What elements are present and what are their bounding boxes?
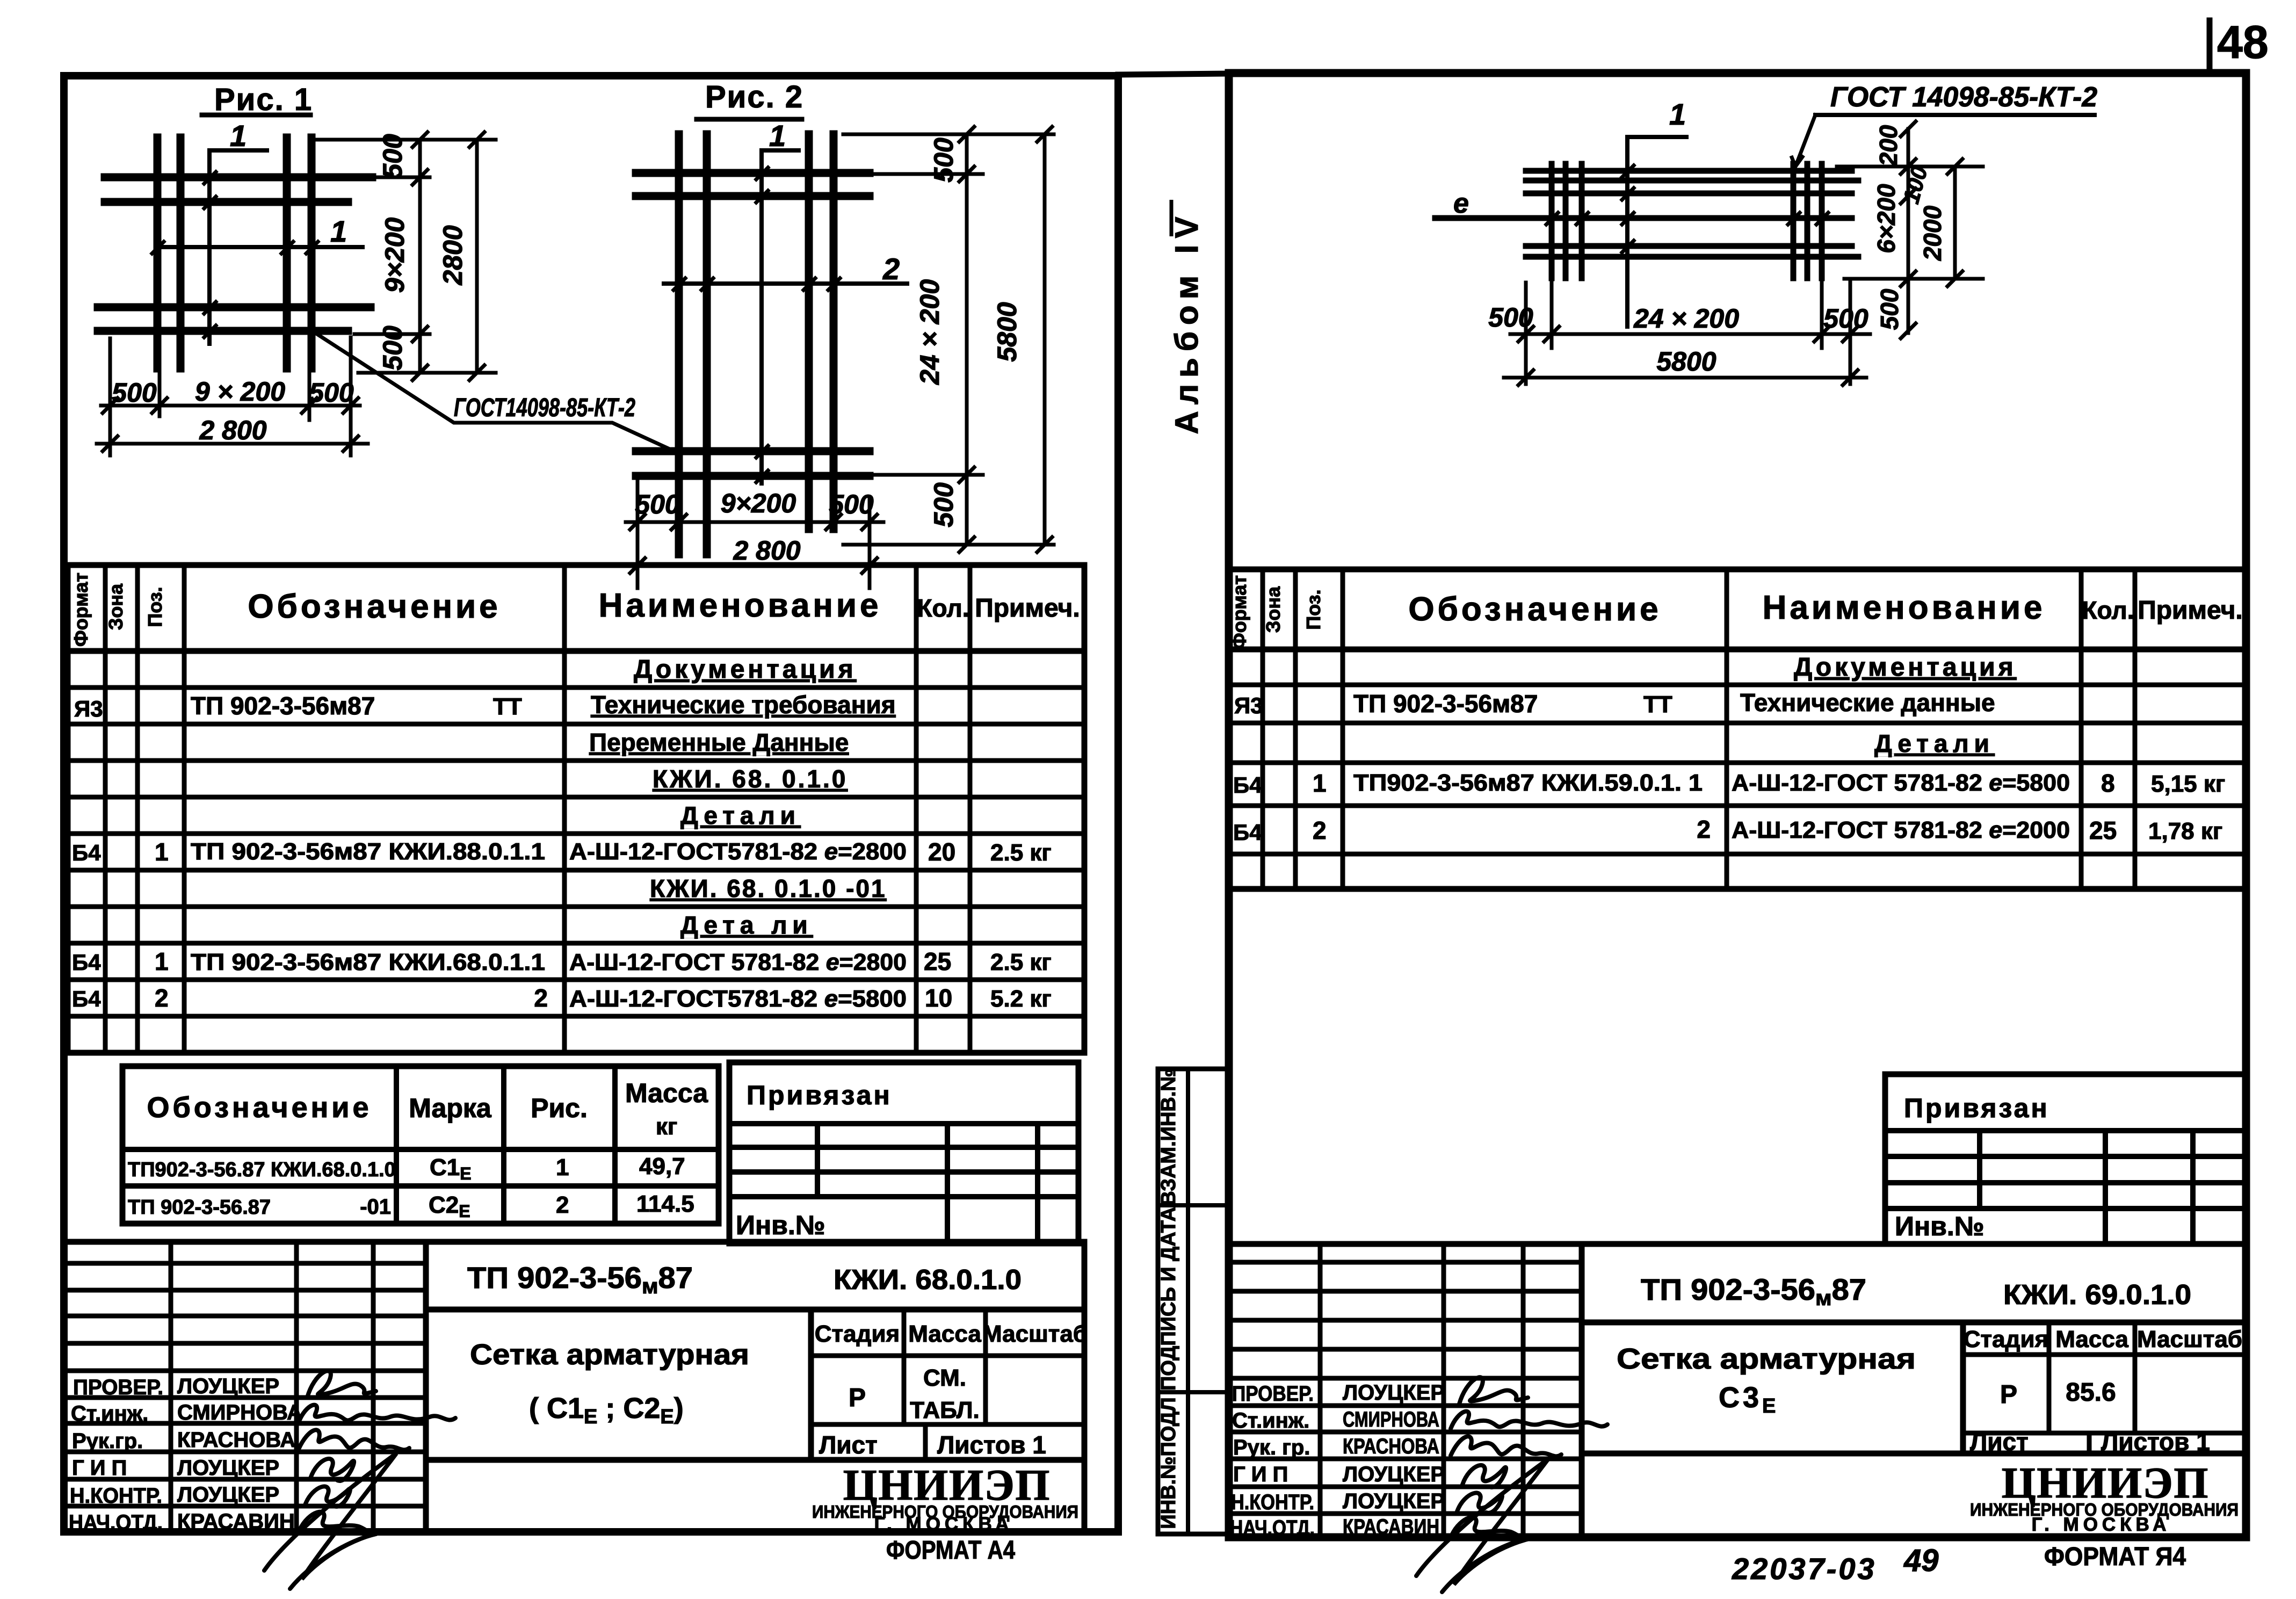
right title massa-masshtab divider (2133, 1322, 2138, 1433)
svg-text:ГОСТ 14098-85-КТ-2: ГОСТ 14098-85-КТ-2 (1830, 82, 2097, 113)
svg-text:Я3: Я3 (74, 696, 103, 721)
right title left-part row lines (1229, 1260, 1582, 1265)
LEFT TABLE GRID (68, 565, 1084, 1053)
svg-text:2: 2 (155, 984, 169, 1012)
svg-text:КРАСНОВА: КРАСНОВА (1343, 1435, 1439, 1458)
svg-text:500: 500 (378, 325, 408, 371)
right table outer box (1229, 569, 2245, 889)
svg-text:85.6: 85.6 (2066, 1378, 2116, 1407)
svg-text:Дета ли: Дета ли (680, 911, 813, 939)
svg-text:Обозначение: Обозначение (147, 1091, 372, 1124)
svg-text:10: 10 (925, 984, 952, 1012)
gost leader polyline (312, 331, 672, 450)
LEFT TITLE BLOCK (68, 1242, 1084, 1532)
svg-text:ЛОУЦКЕР: ЛОУЦКЕР (1343, 1463, 1445, 1486)
right title stadia-massa divider (2047, 1322, 2052, 1433)
right title list row top (1963, 1431, 2245, 1436)
fig2 title underline (697, 117, 802, 122)
svg-text:Масса: Масса (2055, 1326, 2128, 1352)
c3e mesh vertical bar v5 (1805, 164, 1810, 278)
svg-text:-01: -01 (360, 1195, 391, 1219)
svg-text:Обозначение: Обозначение (1408, 591, 1661, 628)
c3e mesh horizontal bar h6 (1526, 254, 1858, 260)
fig1 mesh vertical bar v1 (154, 138, 162, 368)
album IV overline (1170, 200, 1174, 236)
svg-text:Г И П: Г И П (72, 1456, 127, 1480)
fig2 mesh vertical bar v1 (675, 134, 683, 554)
fig2 mesh horizontal bar h4 (636, 472, 870, 480)
r-signature gip loutsker (1462, 1465, 1506, 1487)
svg-text:Поз.: Поз. (1302, 589, 1324, 630)
c3e right ext line top (1837, 165, 1983, 169)
svg-text:ФОРМАТ Я4: ФОРМАТ Я4 (2044, 1543, 2186, 1571)
left title designation row bottom (426, 1307, 1084, 1313)
svg-text:КРАСНОВА: КРАСНОВА (177, 1428, 295, 1452)
right title block top line (1229, 1241, 2245, 1247)
left table outer box (68, 565, 1084, 1053)
svg-text:25: 25 (924, 947, 951, 975)
svg-text:8: 8 (2101, 769, 2115, 797)
fig2 right ext line bottom (843, 543, 1054, 547)
c3e gost leader diagonal (1791, 115, 1815, 167)
svg-text:Б4: Б4 (72, 840, 101, 865)
small table column massa (612, 1066, 618, 1224)
svg-text:ТТ: ТТ (493, 693, 522, 720)
svg-text:КЖИ. 69.0.1.0: КЖИ. 69.0.1.0 (2003, 1279, 2191, 1311)
svg-text:Зона: Зона (105, 583, 127, 630)
fig1 mesh horizontal bar h2 (105, 198, 348, 206)
left table column primech (968, 565, 973, 1053)
c3e mesh horizontal bar h1 (1526, 168, 1852, 174)
svg-text:ТП 902-3-56м87: ТП 902-3-56м87 (467, 1261, 693, 1298)
svg-text:Н.КОНТР.: Н.КОНТР. (1231, 1491, 1314, 1514)
svg-text:2: 2 (534, 984, 548, 1012)
left table column oboznachenie (562, 565, 567, 1053)
fig1 dim line 500-9x200-500 vertical (418, 140, 422, 373)
GOST leader label (312, 331, 672, 450)
right table header bottom line (1229, 647, 2245, 653)
svg-text:5,15 кг: 5,15 кг (2151, 771, 2225, 797)
c3e mesh vertical bar v4 (1791, 164, 1797, 278)
svg-text:ГОСТ14098-85-КТ-2: ГОСТ14098-85-КТ-2 (454, 394, 635, 422)
small table header line (122, 1147, 719, 1152)
left table column poz (182, 565, 187, 1053)
LEFT PRIVYAZAN TEXTS (736, 1080, 892, 1240)
svg-text:СМИРНОВА: СМИРНОВА (1343, 1408, 1439, 1431)
fig2 mesh vertical bar v4 (830, 134, 838, 529)
fig1 mesh vertical bar v2 (177, 138, 185, 368)
svg-text:ЛОУЦКЕР: ЛОУЦКЕР (177, 1483, 279, 1507)
fig1 right ext line top (316, 138, 496, 142)
fig2 mesh vertical bar v3 (805, 134, 813, 529)
svg-text:2: 2 (1313, 816, 1327, 844)
fig2 mesh horizontal bar h3 (636, 447, 870, 455)
fig1 bottom ext vertical right (349, 337, 353, 455)
fig1 right ext line bottom (358, 371, 496, 375)
small table column ris (501, 1066, 506, 1224)
left table column kol (914, 565, 919, 1053)
svg-text:2: 2 (882, 252, 900, 286)
svg-text:ФОРМАТ А4: ФОРМАТ А4 (886, 1536, 1015, 1565)
fig1 bottom ext vertical bar4 (308, 338, 312, 420)
left title list divider (923, 1424, 928, 1460)
c3e right dim chain 2 (1953, 167, 1957, 279)
svg-text:Поз.: Поз. (144, 587, 166, 627)
sheet 2 frame (1229, 73, 2246, 1537)
svg-text:Масса: Масса (625, 1078, 708, 1108)
signature n.kontr loutsker (305, 1487, 350, 1507)
svg-text:5800: 5800 (992, 302, 1022, 361)
svg-text:Привязан: Привязан (1904, 1093, 2049, 1123)
small table outer box (122, 1066, 719, 1224)
margin strip box (1158, 1069, 1228, 1534)
svg-text:Примеч.: Примеч. (2138, 596, 2243, 625)
svg-text:Технические данные: Технические данные (1740, 689, 1995, 717)
RIGHT TITLE BLOCK (1229, 1244, 2245, 1537)
right table column zona (1293, 569, 1298, 889)
fig1 right ext line bar4 (354, 332, 430, 336)
right title list divider (2087, 1433, 2092, 1453)
left table column zona (135, 565, 140, 1053)
svg-text:ЛОУЦКЕР: ЛОУЦКЕР (177, 1374, 279, 1398)
svg-text:Переменные Данные: Переменные Данные (589, 728, 849, 756)
svg-text:Р: Р (849, 1384, 866, 1412)
svg-text:Листов 1: Листов 1 (937, 1431, 1046, 1459)
SIGNATURES RIGHT (1416, 1377, 1607, 1592)
svg-text:ИНВ.№ПОДЛ: ИНВ.№ПОДЛ (1157, 1397, 1180, 1529)
svg-text:2000: 2000 (1918, 205, 1946, 261)
svg-text:2 800: 2 800 (733, 536, 800, 566)
svg-text:1: 1 (230, 119, 247, 153)
right table column oboznachenie (1725, 569, 1729, 889)
svg-text:ТП 902-3-56м87 КЖИ.88.0.1.1: ТП 902-3-56м87 КЖИ.88.0.1.1 (191, 838, 545, 865)
left title stadia header bottom (811, 1354, 1084, 1358)
svg-text:ТП 902-3-56м87: ТП 902-3-56м87 (1641, 1272, 1866, 1310)
svg-text:Г И П: Г И П (1233, 1463, 1288, 1486)
c3e mesh horizontal bar l (1435, 215, 1852, 221)
c3e mesh horizontal bar h2 (1526, 178, 1858, 184)
svg-text:А-Ш-12-ГОСТ 5781-82 e=5800: А-Ш-12-ГОСТ 5781-82 e=5800 (1732, 770, 2070, 796)
svg-text:Масса: Масса (908, 1321, 981, 1347)
svg-text:ТП 902-3-56м87 КЖИ.68.0.1.1: ТП 902-3-56м87 КЖИ.68.0.1.1 (191, 949, 545, 975)
c3e section line 1 flag (1627, 137, 1686, 327)
svg-text:2 800: 2 800 (199, 415, 266, 445)
fig1 right ext line bar1 (354, 176, 430, 179)
LEFT TITLE BLOCK TEXTS (69, 1261, 1088, 1565)
c3e bottom ext vertical bar6 (1820, 281, 1824, 348)
right privyazan column lines (1977, 1131, 1982, 1209)
svg-text:А-Ш-12-ГОСТ5781-82 e=5800: А-Ш-12-ГОСТ5781-82 e=5800 (569, 986, 907, 1012)
svg-text:СМ.: СМ. (923, 1365, 966, 1391)
margin strip cell line VZAM (1158, 1203, 1228, 1207)
fig2 bottom ticks (630, 515, 877, 573)
right table column kol (2079, 569, 2084, 889)
svg-text:24 × 200: 24 × 200 (1633, 303, 1739, 334)
svg-text:Г. МОСКВА: Г. МОСКВА (874, 1514, 1013, 1535)
left title left-part columns (169, 1242, 173, 1532)
fig1 bottom ext vertical bar1 (158, 344, 162, 416)
fig1 section line 1 flag (209, 150, 267, 344)
svg-text:ПРОВЕР.: ПРОВЕР. (73, 1376, 163, 1399)
svg-text:СМИРНОВА: СМИРНОВА (177, 1401, 302, 1424)
svg-text:Сетка арматурная: Сетка арматурная (1617, 1343, 1916, 1375)
fig2 dim line 24x200 vertical (965, 134, 969, 545)
left table header bottom line (68, 648, 1084, 654)
LEFT PRIVYAZAN BOX (729, 1062, 1078, 1243)
svg-text:Листов 1: Листов 1 (2101, 1428, 2210, 1456)
fig1 bottom ext vertical left (108, 338, 112, 455)
c3e weld ticks (1546, 165, 1828, 252)
svg-text:Б4: Б4 (1233, 772, 1262, 798)
r-signature ruk.gr krasnova (1451, 1436, 1561, 1456)
left title stadia section left edge (808, 1309, 814, 1460)
svg-text:кг: кг (656, 1113, 677, 1140)
LEFT SMALL TABLE (122, 1066, 719, 1224)
c3e right ticks (1901, 121, 1962, 338)
r-signature prover loutsker (1459, 1377, 1528, 1404)
svg-text:А-Ш-12-ГОСТ 5781-82 e=2800: А-Ш-12-ГОСТ 5781-82 e=2800 (569, 949, 907, 975)
RIGHT TITLE BLOCK TEXTS (1230, 1272, 2242, 1586)
svg-text:Обозначение: Обозначение (248, 588, 501, 625)
svg-text:Марка: Марка (409, 1093, 492, 1123)
svg-text:ЛОУЦКЕР: ЛОУЦКЕР (1343, 1489, 1445, 1513)
svg-text:Детали: Детали (1874, 729, 1995, 757)
svg-text:5.2 кг: 5.2 кг (990, 986, 1052, 1012)
svg-text:20: 20 (928, 838, 955, 866)
svg-text:ПОДПИСЬ И ДАТА: ПОДПИСЬ И ДАТА (1157, 1207, 1180, 1391)
svg-text:500: 500 (635, 489, 680, 519)
right title left-part columns (1318, 1244, 1323, 1537)
svg-text:Кол.: Кол. (2082, 596, 2134, 624)
svg-text:Ст.инж.: Ст.инж. (71, 1402, 148, 1426)
fig1 bottom ticks (103, 398, 358, 451)
svg-text:Р: Р (2000, 1380, 2017, 1409)
fig1 mesh horizontal bar h3 (98, 303, 371, 312)
svg-text:6×200: 6×200 (1872, 184, 1900, 254)
fig1 mesh horizontal bar h1 (105, 173, 372, 182)
fig2 dim ticks right (959, 127, 1052, 552)
svg-text:Альбом IV: Альбом IV (1169, 211, 1205, 435)
c3e bottom chain 5800 (1504, 376, 1866, 380)
svg-text:500: 500 (1875, 288, 1903, 330)
small table column marka (394, 1066, 399, 1224)
fig1 mesh vertical bar v3 (283, 138, 291, 368)
svg-text:ВЗАМ.ИНВ.№: ВЗАМ.ИНВ.№ (1157, 1068, 1180, 1206)
right table column poz (1341, 569, 1345, 889)
FIG 1 (97, 115, 496, 455)
c3e bottom chain 500-24x200-500 (1510, 332, 1870, 336)
svg-text:КРАСАВИН: КРАСАВИН (1343, 1515, 1439, 1539)
RIGHT PRIVYAZAN BOX (1885, 1074, 2245, 1244)
fig2 section line 1 flag (762, 150, 799, 483)
RIGHT PRIVYAZAN TEXTS (1895, 1093, 2049, 1241)
svg-text:Сетка арматурная: Сетка арматурная (470, 1338, 749, 1371)
svg-text:Б4: Б4 (72, 986, 101, 1011)
fig1 section cut 1 horizontal (160, 245, 363, 249)
signature nach.otd krasavin flourish (300, 1512, 379, 1534)
privyazan column lines (815, 1124, 820, 1197)
left title main box bottom (426, 1457, 1084, 1463)
svg-text:9×200: 9×200 (380, 218, 410, 293)
fig2 section cut 2 horizontal (664, 281, 907, 286)
svg-text:Б4: Б4 (72, 950, 101, 975)
svg-text:КЖИ. 68. 0.1.0 -01: КЖИ. 68. 0.1.0 -01 (650, 874, 887, 902)
svg-text:ТП 902-3-56м87: ТП 902-3-56м87 (191, 692, 375, 720)
c3e bottom ticks (1518, 327, 1858, 385)
c3e bottom ext vertical right (1849, 283, 1852, 384)
svg-text:Технические требования: Технические требования (591, 691, 896, 719)
fig1 bottom chain 2800 (97, 442, 368, 446)
left table row lines (68, 685, 1084, 690)
fig2 right ext line top (843, 133, 1054, 136)
svg-text:Масштаб: Масштаб (982, 1321, 1088, 1347)
signature st.inzh smirnova (299, 1405, 455, 1422)
svg-text:Кол.: Кол. (917, 594, 969, 622)
fig2 right ext line bar1 (870, 172, 983, 176)
left title block top line (68, 1239, 1084, 1245)
c3e bottom ext vertical bar1 (1550, 283, 1554, 348)
svg-text:Наименование: Наименование (1763, 589, 2046, 626)
svg-text:Инв.№: Инв.№ (1895, 1211, 1984, 1241)
svg-text:А-Ш-12-ГОСТ 5781-82 e=2000: А-Ш-12-ГОСТ 5781-82 e=2000 (1732, 817, 2070, 843)
right title stadia section left edge (1960, 1322, 1966, 1453)
svg-text:500: 500 (1823, 303, 1868, 334)
svg-text:48: 48 (2217, 17, 2269, 68)
svg-text:Формат: Формат (70, 573, 92, 647)
privyazan label row line (729, 1121, 1078, 1126)
left title stadia-massa divider (902, 1309, 907, 1424)
svg-text:КЖИ. 68.0.1.0: КЖИ. 68.0.1.0 (834, 1264, 1022, 1296)
c3e mesh horizontal bar h3 (1526, 191, 1852, 197)
svg-text:49: 49 (1903, 1543, 1939, 1578)
left title left-part row lines (68, 1261, 426, 1266)
svg-text:22037-03: 22037-03 (1732, 1552, 1877, 1586)
svg-text:Наименование: Наименование (599, 587, 882, 624)
fig2 bottom chain 500-9x200-500 (626, 520, 883, 524)
c3e mesh vertical bar v1 (1549, 164, 1555, 278)
page number tick (2207, 20, 2213, 73)
svg-text:2: 2 (556, 1192, 569, 1218)
c3e gost underline (1815, 113, 2095, 117)
svg-text:Лист: Лист (819, 1431, 878, 1459)
margin strip divider vertical (1186, 1069, 1190, 1534)
fig1 title underline (202, 113, 310, 118)
right title main box bottom (1582, 1451, 2245, 1457)
top border joining line (1118, 74, 1229, 75)
svg-text:2.5 кг: 2.5 кг (990, 840, 1052, 866)
svg-text:ЛОУЦКЕР: ЛОУЦКЕР (177, 1456, 279, 1480)
svg-text:500: 500 (378, 134, 408, 179)
c3e right dim chain 1 (1907, 129, 1910, 333)
svg-text:25: 25 (2089, 816, 2117, 844)
svg-text:ТТ: ТТ (1643, 691, 1672, 718)
svg-text:1: 1 (330, 214, 347, 248)
svg-text:9×200: 9×200 (721, 488, 796, 518)
svg-text:Рук. гр.: Рук. гр. (1233, 1436, 1310, 1459)
right table column primech (2133, 569, 2138, 889)
FIG 2 (622, 119, 1054, 588)
fig2 bottom chain 2800 (622, 564, 887, 568)
fig2 mesh vertical bar v2 (703, 134, 711, 554)
fig1 dim line 2800 vertical (475, 140, 479, 373)
c3e mesh vertical bar v6 (1819, 164, 1825, 278)
svg-text:ЛОУЦКЕР: ЛОУЦКЕР (1343, 1381, 1445, 1405)
svg-text:Стадия: Стадия (815, 1321, 900, 1347)
SIGNATURES LEFT (264, 1371, 455, 1589)
LEFT SMALL TABLE TEXTS (128, 1078, 708, 1221)
small table row line (122, 1183, 719, 1189)
svg-text:500: 500 (1488, 302, 1533, 332)
fig2 dim line 5800 vertical (1043, 134, 1047, 545)
svg-text:5800: 5800 (1656, 346, 1716, 377)
svg-text:e: e (1453, 188, 1469, 219)
svg-text:КРАСАВИН: КРАСАВИН (177, 1510, 295, 1533)
svg-text:114.5: 114.5 (636, 1191, 694, 1217)
fig2 mesh horizontal bar h2 (636, 192, 870, 200)
svg-text:1,78 кг: 1,78 кг (2148, 818, 2222, 844)
c3e bottom ext vertical left (1524, 283, 1528, 384)
r-signature n.kontr loutsker (1457, 1493, 1502, 1513)
svg-text:Формат: Формат (1228, 575, 1250, 649)
fig2 right ext line bar4 (870, 473, 983, 477)
svg-text:Рис. 2: Рис. 2 (705, 79, 803, 114)
left table column format (103, 565, 108, 1053)
RIGHT TABLE TEXTS (1228, 575, 2243, 845)
r-signature st.inzh smirnova (1451, 1412, 1607, 1429)
svg-text:А-Ш-12-ГОСТ5781-82 e=2800: А-Ш-12-ГОСТ5781-82 e=2800 (569, 838, 907, 865)
svg-text:Б4: Б4 (1233, 820, 1262, 845)
svg-text:ПРОВЕР.: ПРОВЕР. (1232, 1382, 1314, 1406)
fig1 dim ticks right (412, 132, 484, 380)
fig1 bottom chain 500-9x200-500 (101, 404, 360, 408)
svg-text:2800: 2800 (438, 225, 468, 285)
fig2 bottom ext vertical left (636, 475, 640, 588)
fig1 mesh vertical bar v4 (308, 138, 316, 368)
svg-text:200: 200 (1874, 125, 1902, 167)
svg-text:Рис.: Рис. (531, 1093, 588, 1123)
c3e mesh vertical bar v2 (1563, 164, 1569, 278)
svg-text:КЖИ. 68. 0.1.0: КЖИ. 68. 0.1.0 (653, 765, 848, 793)
fig1 mesh horizontal bar h4 (98, 327, 348, 335)
svg-text:Инв.№: Инв.№ (736, 1210, 825, 1240)
svg-text:1: 1 (769, 119, 786, 153)
margin strip cell line PODPIS (1158, 1390, 1228, 1394)
right table row lines (1229, 683, 2245, 688)
sheet 1 frame (64, 76, 1118, 1532)
signature prover loutsker (307, 1371, 376, 1398)
svg-text:Детали: Детали (680, 801, 801, 829)
svg-text:Зона: Зона (1262, 586, 1284, 633)
svg-text:Н.КОНТР.: Н.КОНТР. (70, 1484, 162, 1508)
svg-text:Документация: Документация (1794, 653, 2017, 682)
svg-text:500: 500 (929, 482, 959, 527)
svg-text:Ст.инж.: Ст.инж. (1232, 1409, 1309, 1432)
signature ruk.gr krasnova (299, 1430, 409, 1450)
fig1 weld ticks on mesh (152, 172, 318, 337)
right privyazan label row line (1885, 1128, 2245, 1133)
left title list row top (811, 1422, 1084, 1427)
svg-text:Лист: Лист (1970, 1428, 2029, 1456)
right title stadia header bottom (1963, 1352, 2245, 1357)
svg-text:ТАБЛ.: ТАБЛ. (910, 1397, 980, 1423)
privyazan box outer (729, 1062, 1078, 1243)
right table column format (1261, 569, 1265, 889)
svg-text:Документация: Документация (634, 655, 857, 684)
svg-text:ТП902-3-56м87 КЖИ.59.0.1. 1: ТП902-3-56м87 КЖИ.59.0.1. 1 (1353, 770, 1703, 796)
fig2 mesh horizontal bar h1 (636, 169, 870, 177)
svg-text:2: 2 (1697, 815, 1711, 843)
svg-text:9 × 200: 9 × 200 (195, 377, 285, 407)
